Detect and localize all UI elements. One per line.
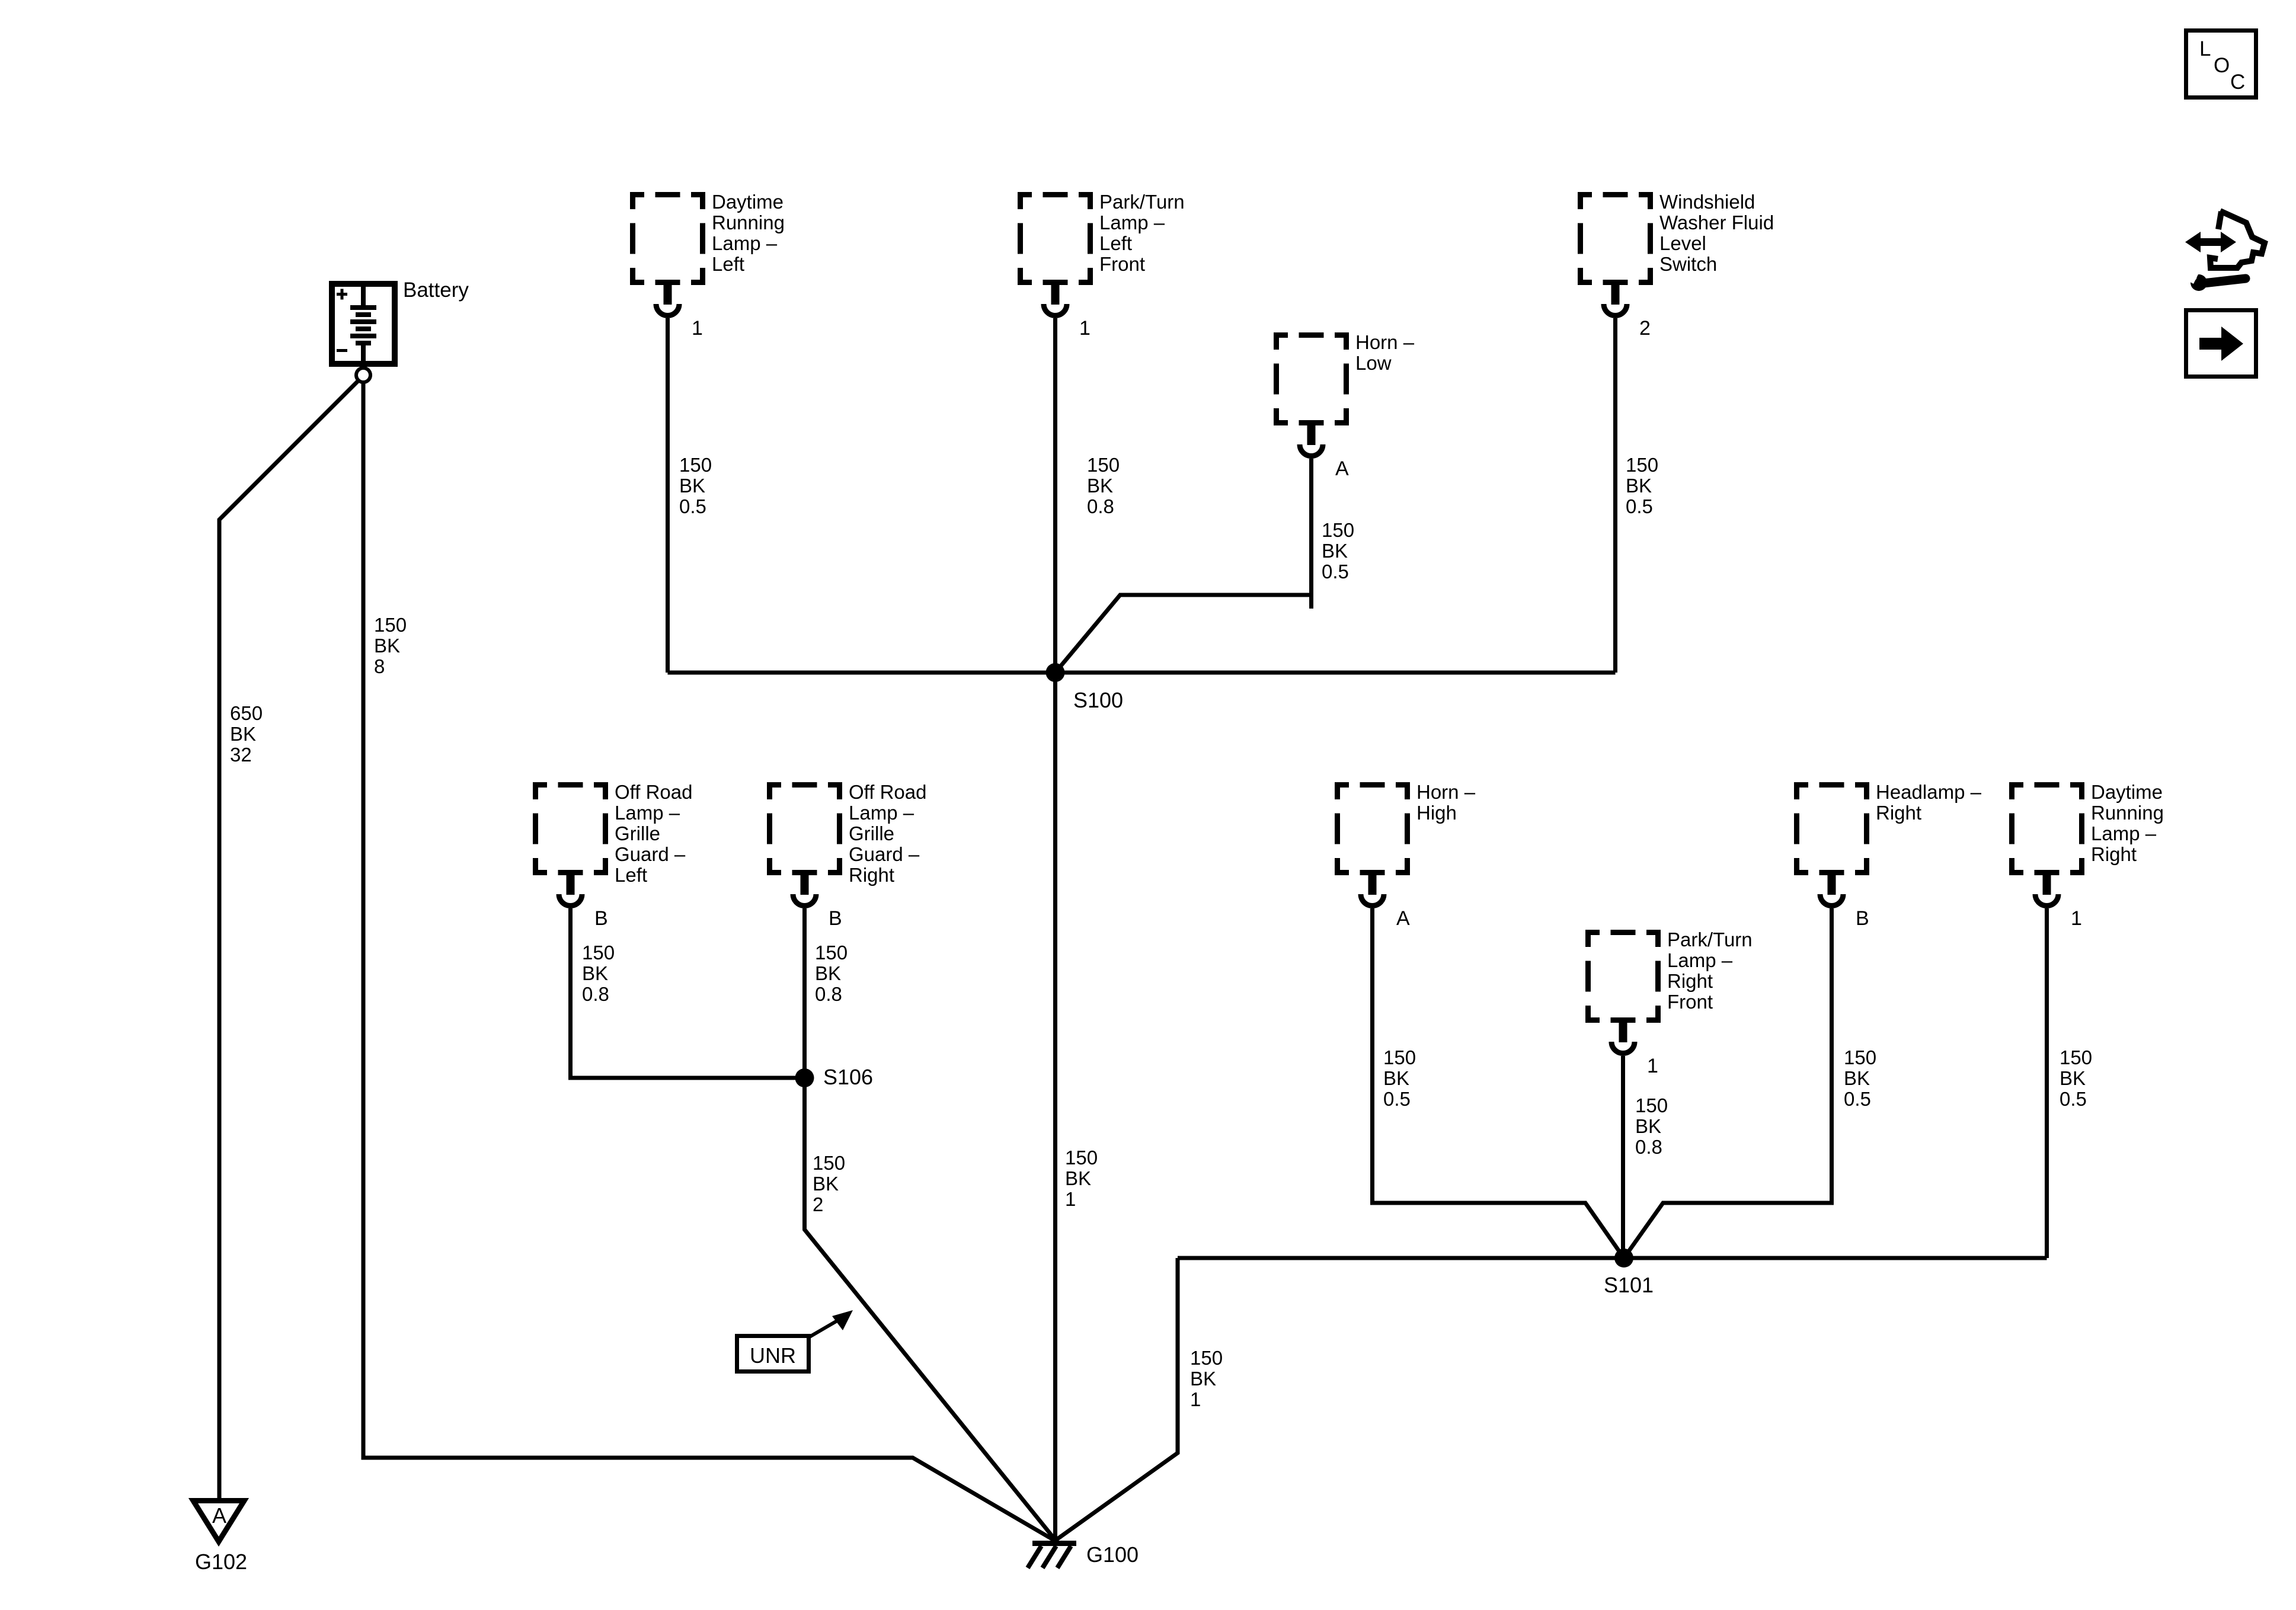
connector: Windshield Washer Fluid Level Switch bbox=[1578, 192, 1653, 316]
splice S106 bbox=[795, 1068, 814, 1087]
ground G100 bbox=[1028, 1541, 1076, 1568]
svg-text:150BK0.8: 150BK0.8 bbox=[1087, 454, 1120, 517]
wire: battery to G100 (150 BK 8) bbox=[363, 382, 1055, 1541]
svg-text:Battery: Battery bbox=[403, 279, 469, 302]
wire: battery to G102 (650 BK 32) bbox=[219, 380, 359, 1500]
svg-text:G102: G102 bbox=[195, 1550, 247, 1574]
svg-text:Park/TurnLamp –LeftFront: Park/TurnLamp –LeftFront bbox=[1099, 191, 1185, 275]
svg-text:Off RoadLamp –GrilleGuard –Lef: Off RoadLamp –GrilleGuard –Left bbox=[615, 781, 692, 886]
wire: Headlamp - Right to S101 (150 BK 0.5) bbox=[1624, 908, 1832, 1258]
svg-text:Horn –Low: Horn –Low bbox=[1355, 331, 1415, 374]
svg-text:WindshieldWasher FluidLevelSwi: WindshieldWasher FluidLevelSwitch bbox=[1659, 191, 1774, 275]
wire: Off Road Lamp - Grille Guard - Right through S106 to G100 (150 BK 0.8 / 150 BK 2) bbox=[805, 908, 1056, 1539]
wire: S101 to G100 (150 BK 1) bbox=[1055, 1258, 1178, 1541]
svg-text:150BK1: 150BK1 bbox=[1190, 1347, 1223, 1410]
svg-text:A: A bbox=[1335, 457, 1349, 480]
svg-text:A: A bbox=[1396, 907, 1410, 930]
forward arrow box bbox=[2186, 311, 2256, 377]
svg-text:G100: G100 bbox=[1086, 1542, 1139, 1567]
wire: Park/Turn Lamp - Right Front to S101 (150 BK 0.8) bbox=[1621, 1056, 1625, 1258]
svg-text:1: 1 bbox=[692, 317, 703, 340]
svg-text:Horn –High: Horn –High bbox=[1416, 781, 1476, 824]
svg-text:UNR: UNR bbox=[750, 1343, 796, 1368]
connector: Horn - High bbox=[1335, 782, 1410, 906]
battery negative terminal circle bbox=[356, 368, 370, 382]
svg-text:150BK0.8: 150BK0.8 bbox=[815, 942, 848, 1005]
svg-text:B: B bbox=[829, 907, 842, 930]
svg-text:1: 1 bbox=[1079, 317, 1091, 340]
svg-text:A: A bbox=[212, 1503, 226, 1528]
UNR arrow bbox=[810, 1310, 853, 1337]
svg-text:S101: S101 bbox=[1604, 1273, 1654, 1297]
svg-text:Headlamp –Right: Headlamp –Right bbox=[1876, 781, 1982, 824]
connector: Off Road Lamp - Grille Guard - Left bbox=[533, 782, 608, 906]
wire: S100 bus bbox=[668, 671, 1616, 675]
svg-text:150BK0.8: 150BK0.8 bbox=[582, 942, 615, 1005]
connector: Horn - Low bbox=[1274, 332, 1349, 456]
svg-text:DaytimeRunningLamp –Right: DaytimeRunningLamp –Right bbox=[2091, 781, 2164, 865]
svg-text:S106: S106 bbox=[823, 1065, 873, 1089]
wire: Windshield Washer Fluid Level Switch to S100 (150 BK 0.5) bbox=[1613, 318, 1617, 673]
svg-text:150BK0.5: 150BK0.5 bbox=[679, 454, 712, 517]
svg-text:150BK8: 150BK8 bbox=[374, 614, 407, 677]
svg-text:1: 1 bbox=[2071, 907, 2082, 930]
wire: Horn - High to S101 (150 BK 0.5) bbox=[1373, 908, 1625, 1258]
wire: Off Road Lamp - Grille Guard - Left to S106 (150 BK 0.8) bbox=[571, 908, 805, 1078]
splice S101 bbox=[1614, 1249, 1633, 1267]
svg-text:150BK0.5: 150BK0.5 bbox=[1383, 1046, 1416, 1110]
battery bbox=[332, 284, 395, 367]
connector: Park/Turn Lamp - Left Front bbox=[1018, 192, 1093, 316]
LOC reference box bbox=[2186, 31, 2256, 98]
connector: Daytime Running Lamp - Left bbox=[630, 192, 705, 316]
vehicle service icon bbox=[2183, 211, 2265, 291]
connector: Daytime Running Lamp - Right bbox=[2009, 782, 2084, 906]
UNR callout box bbox=[737, 1336, 809, 1372]
ground G102 bbox=[193, 1501, 244, 1542]
wire: S101 bus bbox=[1178, 1256, 2047, 1260]
svg-text:150BK0.5: 150BK0.5 bbox=[1844, 1046, 1876, 1110]
svg-text:650BK32: 650BK32 bbox=[230, 702, 263, 766]
svg-text:Park/TurnLamp –RightFront: Park/TurnLamp –RightFront bbox=[1667, 929, 1753, 1013]
wire: Park/Turn Lamp - Left Front through S100 to G100 (150 BK 0.8 / 150 BK 1) bbox=[1053, 318, 1057, 1542]
connector: Headlamp - Right bbox=[1794, 782, 1869, 906]
svg-text:150BK0.5: 150BK0.5 bbox=[2060, 1046, 2092, 1110]
svg-text:B: B bbox=[594, 907, 608, 930]
wire: Daytime Running Lamp - Left to S100 (150 BK 0.5) bbox=[666, 318, 670, 673]
svg-text:150BK0.5: 150BK0.5 bbox=[1322, 519, 1354, 582]
svg-text:1: 1 bbox=[1647, 1055, 1658, 1077]
connector: Off Road Lamp - Grille Guard - Right bbox=[767, 782, 842, 906]
svg-text:B: B bbox=[1856, 907, 1869, 930]
svg-text:150BK2: 150BK2 bbox=[813, 1152, 845, 1215]
svg-text:150BK0.5: 150BK0.5 bbox=[1626, 454, 1658, 517]
svg-text:2: 2 bbox=[1639, 317, 1651, 340]
svg-text:Off RoadLamp –GrilleGuard –Rig: Off RoadLamp –GrilleGuard –Right bbox=[849, 781, 926, 886]
svg-text:150BK1: 150BK1 bbox=[1065, 1147, 1098, 1210]
svg-text:L: L bbox=[2199, 37, 2211, 60]
svg-text:150BK0.8: 150BK0.8 bbox=[1635, 1094, 1668, 1158]
svg-text:C: C bbox=[2230, 71, 2245, 94]
splice S100 bbox=[1046, 663, 1065, 682]
connector: Park/Turn Lamp - Right Front bbox=[1585, 930, 1661, 1054]
svg-text:DaytimeRunningLamp –Left: DaytimeRunningLamp –Left bbox=[712, 191, 785, 275]
svg-text:S100: S100 bbox=[1073, 688, 1123, 712]
svg-text:O: O bbox=[2214, 54, 2230, 77]
wire: Daytime Running Lamp - Right to S101 (150 BK 0.5) bbox=[2045, 908, 2049, 1258]
wire: Horn - Low to S100 (150 BK 0.5) bbox=[1056, 459, 1312, 673]
